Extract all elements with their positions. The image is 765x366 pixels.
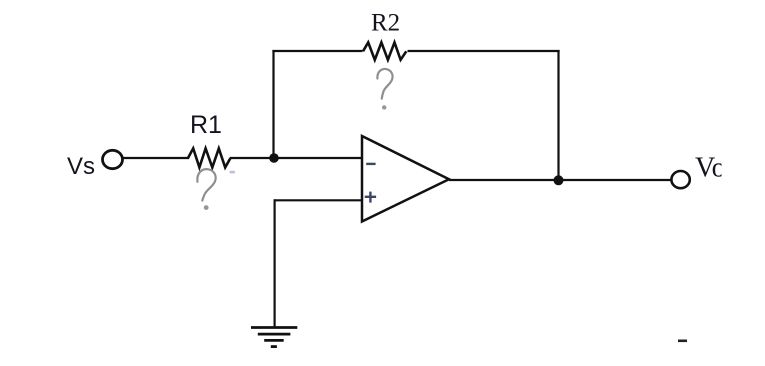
- node output junction: [554, 175, 564, 185]
- wire feedback down to output: [557, 50, 559, 181]
- terminal Vo: [671, 171, 689, 188]
- terminal Vs: [103, 150, 123, 168]
- svg-text:R1: R1: [190, 111, 222, 139]
- wire non-inverting input: [275, 199, 361, 201]
- wire output: [449, 179, 672, 181]
- stray mark near R1: [230, 171, 236, 174]
- minus sign inverting input: [366, 163, 375, 165]
- plus sign non-inverting input: [365, 196, 376, 198]
- node inverting input junction: [269, 153, 279, 163]
- ground: [251, 326, 297, 329]
- wire down to ground: [274, 199, 276, 327]
- resistor R1: [188, 148, 231, 167]
- svg-text:Vo: Vo: [695, 153, 726, 184]
- dash bottom right: [678, 339, 687, 342]
- wire Vs to R1: [123, 157, 189, 159]
- question mark R2 value: [377, 69, 392, 99]
- wire top feedback right: [408, 50, 560, 52]
- wire R1 to inverting input: [230, 157, 361, 159]
- wire top feedback left: [272, 50, 362, 52]
- svg-text:Vs: Vs: [67, 153, 95, 180]
- resistor R2: [363, 42, 406, 59]
- question mark R1 value: [197, 169, 215, 200]
- svg-text:R2: R2: [371, 10, 400, 37]
- wire node up to feedback: [272, 50, 274, 158]
- op-amp U1: [362, 136, 449, 222]
